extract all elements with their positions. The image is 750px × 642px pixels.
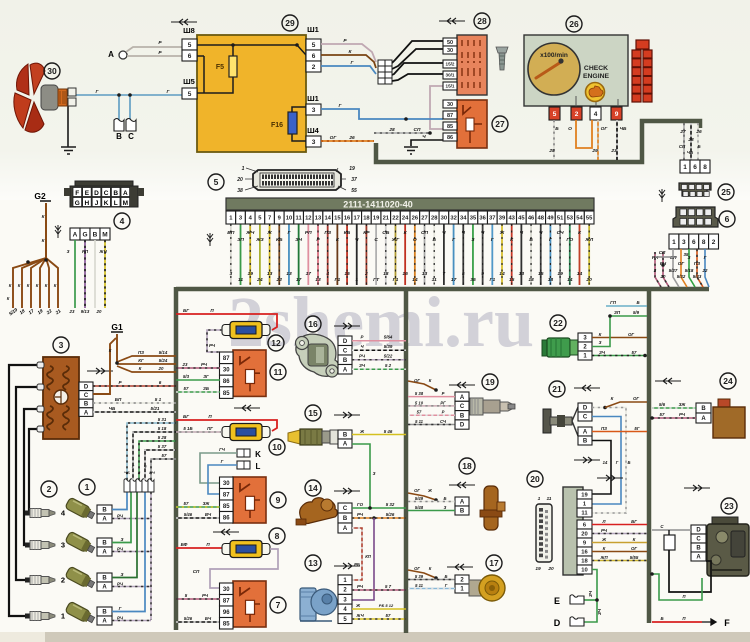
svg-text:34: 34 [460,216,467,222]
svg-text:СП: СП [659,250,666,255]
svg-text:12: 12 [305,216,311,222]
svg-text:ОГ: ОГ [414,566,420,571]
svg-text:35: 35 [470,216,477,222]
svg-text:5/24: 5/24 [159,358,168,363]
svg-text:B: B [102,508,107,514]
svg-text:3: 3 [682,239,686,246]
svg-text:A: A [123,190,128,197]
svg-text:Г: Г [704,255,707,260]
svg-text:5: 5 [553,111,557,118]
svg-text:37: 37 [489,216,495,222]
svg-text:14: 14 [577,271,583,277]
svg-text:10: 10 [581,568,587,574]
svg-text:5/26: 5/26 [184,616,193,621]
svg-text:6: 6 [159,380,162,385]
svg-text:5/14: 5/14 [159,350,168,355]
svg-text:ВП: ВП [227,230,235,236]
svg-text:22: 22 [392,216,398,222]
svg-text:8: 8 [703,164,707,171]
svg-text:20: 20 [660,274,666,279]
svg-text:14: 14 [499,271,505,277]
svg-text:7: 7 [276,600,281,610]
svg-text:53: 53 [567,216,574,222]
svg-text:4: 4 [120,216,125,226]
svg-text:87: 87 [447,113,453,119]
svg-text:E: E [554,596,560,606]
svg-text:Ч: Ч [520,230,524,236]
svg-text:ГП: ГП [610,300,617,305]
svg-text:5/64: 5/64 [384,335,393,340]
svg-text:A: A [460,500,465,506]
svg-text:Р: Р [442,410,445,415]
svg-text:ЗЧ: ЗЧ [597,608,602,615]
svg-text:С: С [374,237,378,243]
svg-text:Ч: Ч [539,230,543,236]
svg-text:A: A [696,555,701,561]
svg-text:Ч: Ч [462,230,466,236]
svg-text:A: A [73,231,78,238]
svg-text:87: 87 [223,598,230,604]
svg-text:О: О [413,237,417,243]
svg-text:36: 36 [479,216,486,222]
svg-text:ОГ: ОГ [414,488,420,493]
svg-text:К: К [429,566,432,571]
svg-text:26: 26 [569,19,579,29]
svg-text:1: 1 [683,164,687,171]
svg-text:22: 22 [276,277,283,283]
svg-text:17: 17 [354,216,360,222]
svg-text:РЧ: РЧ [357,512,364,517]
svg-text:9: 9 [276,495,281,505]
svg-text:B: B [460,413,465,419]
svg-text:20: 20 [581,532,587,538]
svg-text:CHECK: CHECK [584,65,608,72]
svg-text:ОГ: ОГ [414,378,420,383]
svg-text:ЗЧ: ЗЧ [295,237,302,243]
svg-text:Р: Р [361,335,364,340]
svg-text:A: A [343,367,348,373]
svg-text:15: 15 [308,408,318,418]
svg-text:5 1: 5 1 [155,397,162,402]
svg-text:9: 9 [481,271,484,277]
svg-text:5: 5 [312,42,316,49]
svg-text:5 32: 5 32 [386,502,395,507]
svg-text:ЖЧ: ЖЧ [245,230,255,236]
svg-text:6: 6 [312,53,316,60]
svg-text:57: 57 [386,613,391,618]
svg-text:Б: Б [628,460,631,465]
svg-text:5 11: 5 11 [415,419,424,424]
svg-text:24: 24 [402,216,409,222]
svg-text:Б: Б [636,300,639,305]
svg-text:13: 13 [519,271,525,277]
svg-text:51: 51 [557,216,564,222]
svg-text:B: B [701,406,706,412]
svg-text:1: 1 [61,612,65,621]
svg-text:ГЧ: ГЧ [219,447,226,452]
svg-text:КГ: КГ [138,358,144,363]
svg-text:ПГ: ПГ [207,426,213,431]
svg-text:5 46: 5 46 [384,429,393,434]
svg-text:21: 21 [552,384,562,394]
svg-text:18: 18 [383,271,389,277]
svg-text:16: 16 [344,216,351,222]
svg-text:РЧ: РЧ [601,528,608,533]
svg-text:2111-1411020-40: 2111-1411020-40 [343,200,413,210]
svg-text:ЗЖ: ЗЖ [203,501,211,506]
svg-text:35: 35 [684,252,689,257]
svg-text:55: 55 [586,216,593,222]
svg-text:28: 28 [477,16,487,26]
svg-text:Г1: Г1 [335,277,341,283]
svg-text:22: 22 [702,268,708,273]
svg-text:ОГ: ОГ [678,261,685,266]
svg-text:РЧ: РЧ [357,584,364,589]
svg-text:Ш4: Ш4 [307,126,320,135]
svg-text:К: К [139,366,142,371]
svg-text:5/6: 5/6 [659,402,666,407]
svg-text:СЧ: СЧ [557,230,565,236]
svg-text:30: 30 [223,587,230,593]
svg-text:27: 27 [495,119,505,129]
svg-text:5: 5 [462,271,465,277]
svg-text:19: 19 [535,566,541,572]
svg-text:Г: Г [616,460,619,465]
svg-text:K: K [255,450,261,459]
svg-text:РП: РП [82,249,89,254]
svg-text:3: 3 [229,271,232,277]
svg-text:9/13: 9/13 [81,309,90,314]
svg-text:D: D [460,423,465,429]
svg-text:11: 11 [432,277,437,283]
svg-text:30: 30 [223,368,230,374]
svg-text:5/32: 5/32 [677,274,686,279]
svg-text:2: 2 [364,271,368,277]
svg-text:5/27: 5/27 [669,268,678,273]
svg-text:ОГ: ОГ [633,396,639,401]
svg-text:КР: КР [363,230,370,236]
svg-text:9: 9 [615,111,619,118]
svg-text:26: 26 [412,216,419,222]
svg-text:ЗП: ЗП [614,310,621,315]
svg-text:24: 24 [256,277,263,283]
svg-text:5: 5 [188,42,192,49]
svg-text:Г: Г [221,459,224,464]
svg-text:Ч: Ч [144,464,147,469]
svg-text:14: 14 [324,216,331,222]
svg-text:2: 2 [712,239,716,246]
svg-text:5 39: 5 39 [415,574,424,579]
svg-text:6: 6 [693,164,697,171]
svg-text:10: 10 [272,442,282,452]
svg-text:Р: Р [442,391,445,396]
svg-text:A: A [583,430,588,436]
svg-text:D: D [696,528,701,534]
svg-text:26: 26 [348,135,355,141]
svg-text:Ч: Ч [355,237,359,243]
svg-text:25: 25 [548,148,555,154]
svg-text:5 37: 5 37 [158,444,167,449]
svg-text:ЖЛ: ЖЛ [584,237,594,243]
svg-text:БП: БП [115,397,122,402]
svg-text:5/48: 5/48 [415,505,424,510]
svg-text:РЧ: РЧ [149,470,155,475]
svg-text:2: 2 [47,484,52,494]
svg-text:5 38: 5 38 [415,391,424,396]
svg-text:5: 5 [188,91,192,98]
svg-text:18: 18 [581,559,588,565]
svg-text:5 28: 5 28 [158,435,167,440]
svg-text:7: 7 [443,271,446,277]
svg-text:ГО: ГО [566,237,573,243]
svg-text:Ш1: Ш1 [307,94,319,103]
svg-text:Ш1: Ш1 [307,25,319,34]
svg-text:РП: РП [305,230,312,236]
svg-text:5 1Б: 5 1Б [183,426,192,431]
svg-text:19: 19 [485,377,495,387]
svg-text:D: D [94,190,99,197]
svg-text:B: B [343,516,348,522]
svg-text:17: 17 [451,277,457,283]
svg-text:ЧБ: ЧБ [109,406,116,411]
svg-text:5/49: 5/49 [415,496,424,501]
svg-text:M: M [123,200,128,207]
svg-text:35: 35 [470,277,476,283]
svg-text:5 11: 5 11 [415,583,424,588]
svg-text:25: 25 [721,187,731,197]
svg-text:5 7: 5 7 [385,584,392,589]
svg-text:A: A [102,517,107,523]
svg-text:57: 57 [184,501,189,506]
svg-text:30: 30 [223,481,230,487]
svg-text:5: 5 [214,177,219,187]
svg-text:57: 57 [184,386,189,391]
svg-text:D: D [84,384,89,390]
svg-text:D: D [583,406,588,412]
svg-text:К: К [599,332,602,337]
svg-text:РЧ: РЧ [117,547,124,552]
svg-text:A: A [701,416,706,422]
svg-text:87: 87 [223,356,230,362]
svg-text:14: 14 [308,483,318,493]
svg-text:5/39: 5/39 [384,344,393,349]
svg-text:B: B [102,576,107,582]
svg-text:БГ: БГ [631,519,637,524]
svg-text:ЖЧ: ЖЧ [355,613,364,618]
svg-text:H: H [85,200,90,207]
svg-text:K: K [104,200,109,207]
svg-text:Ч: Ч [422,134,426,140]
svg-text:СП: СП [193,569,200,574]
svg-text:РГ: РГ [440,400,446,405]
svg-text:5 18: 5 18 [158,426,167,431]
svg-text:C: C [460,404,465,410]
svg-text:85: 85 [223,504,230,510]
svg-text:ЖЗ: ЖЗ [255,237,264,243]
svg-text:5/9: 5/9 [633,310,640,315]
svg-text:29: 29 [591,148,598,154]
svg-text:38: 38 [237,188,243,194]
svg-text:ПЗ: ПЗ [324,230,332,236]
svg-text:F: F [75,190,79,197]
svg-text:15/1: 15/1 [446,84,455,89]
svg-text:G2: G2 [34,191,46,201]
svg-text:ЧБ: ЧБ [687,150,693,155]
svg-text:C: C [128,132,134,141]
svg-text:ГО: ГО [357,502,364,507]
svg-text:ПЗ: ПЗ [601,426,607,431]
svg-text:F: F [724,618,730,628]
svg-text:8: 8 [702,239,706,246]
svg-text:B: B [460,509,465,515]
svg-text:A: A [102,550,107,556]
svg-text:30: 30 [447,48,453,54]
svg-text:23: 23 [182,362,188,367]
svg-text:A: A [343,526,348,532]
svg-text:G: G [82,231,87,238]
svg-text:Б: Б [555,126,559,132]
svg-text:2: 2 [61,576,65,585]
svg-text:x100/min: x100/min [540,52,568,59]
svg-text:СП: СП [414,127,421,133]
svg-text:Б: Б [529,237,533,243]
svg-text:22: 22 [553,318,563,328]
svg-text:ОГ: ОГ [330,135,338,141]
svg-text:28: 28 [431,216,438,222]
svg-text:БФ: БФ [181,542,188,547]
svg-text:Ж: Ж [266,230,272,236]
svg-text:6: 6 [692,239,696,246]
svg-text:З: З [373,471,376,476]
svg-text:К: К [27,283,30,288]
svg-text:1: 1 [242,166,245,172]
svg-text:A: A [84,410,89,416]
svg-text:C: C [696,537,701,543]
svg-text:18: 18 [528,277,534,283]
svg-text:20: 20 [158,366,164,371]
svg-text:28: 28 [687,137,694,143]
svg-text:86: 86 [223,379,230,385]
svg-text:ENGINE: ENGINE [583,73,610,80]
svg-text:ЗП: ЗП [237,237,244,243]
svg-text:3: 3 [312,107,316,114]
svg-text:К: К [36,283,39,288]
svg-text:20: 20 [585,277,592,283]
svg-text:19: 19 [247,271,253,277]
svg-text:43: 43 [508,216,515,222]
svg-text:Ч: Ч [442,230,446,236]
svg-text:ПЗ: ПЗ [138,350,144,355]
svg-text:C: C [583,415,588,421]
svg-text:10: 10 [286,216,292,222]
svg-text:15: 15 [344,271,350,277]
svg-text:К: К [54,283,57,288]
svg-text:27: 27 [679,129,686,135]
svg-text:СП: СП [421,230,429,236]
svg-text:13: 13 [267,271,273,277]
svg-text:Б: Б [432,237,436,243]
svg-text:ЧБ: ЧБ [620,126,627,132]
svg-text:32: 32 [450,216,456,222]
svg-text:Г: Г [445,583,448,588]
svg-text:14: 14 [603,460,608,465]
svg-text:К: К [611,396,614,401]
svg-text:18: 18 [462,461,472,471]
svg-text:5/26: 5/26 [386,512,395,517]
svg-text:РЧ: РЧ [359,354,366,359]
svg-text:Г1: Г1 [489,277,495,283]
svg-text:86: 86 [223,515,230,521]
svg-text:23: 23 [610,148,617,154]
svg-text:85: 85 [223,621,230,627]
svg-text:Ш5: Ш5 [183,77,195,86]
svg-text:85: 85 [447,124,453,130]
svg-text:19: 19 [349,166,355,172]
svg-text:З: З [121,537,124,542]
svg-text:57: 57 [660,412,665,417]
svg-text:54: 54 [576,216,583,222]
svg-text:15: 15 [334,216,341,222]
svg-text:G: G [75,200,80,207]
svg-text:РЧ: РЧ [117,582,124,587]
svg-text:7: 7 [268,216,271,222]
svg-text:ЗЖ: ЗЖ [679,402,687,407]
svg-text:B: B [102,610,107,616]
svg-text:З: З [67,249,70,254]
svg-text:14: 14 [567,277,573,283]
svg-text:23: 23 [69,309,75,314]
svg-text:КБ: КБ [344,230,351,236]
svg-text:ЗЧ: ЗЧ [599,350,606,355]
svg-text:СЧ: СЧ [440,419,447,424]
svg-text:З: З [444,505,447,510]
svg-text:БЧ: БЧ [205,616,212,621]
svg-text:16: 16 [308,319,318,329]
svg-text:B: B [84,402,89,408]
svg-text:B: B [93,231,98,238]
svg-text:85: 85 [223,391,230,397]
svg-text:37: 37 [351,177,357,183]
svg-text:55: 55 [351,188,357,194]
svg-text:РЧ: РЧ [679,412,686,417]
svg-text:15: 15 [538,271,544,277]
svg-text:2: 2 [575,111,579,118]
svg-text:17: 17 [489,558,499,568]
svg-text:19: 19 [373,216,380,222]
svg-text:C: C [343,348,348,354]
svg-text:ЖГ: ЖГ [391,237,401,243]
svg-text:J: J [95,200,99,207]
svg-text:ЗЧ: ЗЧ [588,590,593,597]
svg-text:C: C [104,190,109,197]
svg-text:РБ 5 12: РБ 5 12 [379,603,394,608]
svg-text:23: 23 [724,501,734,511]
svg-text:РЧ: РЧ [117,616,124,621]
svg-text:5/22: 5/22 [384,354,393,359]
svg-text:13: 13 [315,216,322,222]
svg-text:B: B [696,546,701,552]
svg-text:F5: F5 [216,64,224,71]
svg-text:46: 46 [528,216,535,222]
svg-text:К: К [109,348,112,353]
svg-text:13: 13 [308,558,318,568]
svg-text:КП: КП [365,554,372,559]
svg-text:2: 2 [312,64,316,71]
svg-text:30: 30 [47,66,57,76]
svg-text:A: A [102,619,107,625]
svg-text:39: 39 [499,216,506,222]
svg-text:A: A [108,50,114,59]
